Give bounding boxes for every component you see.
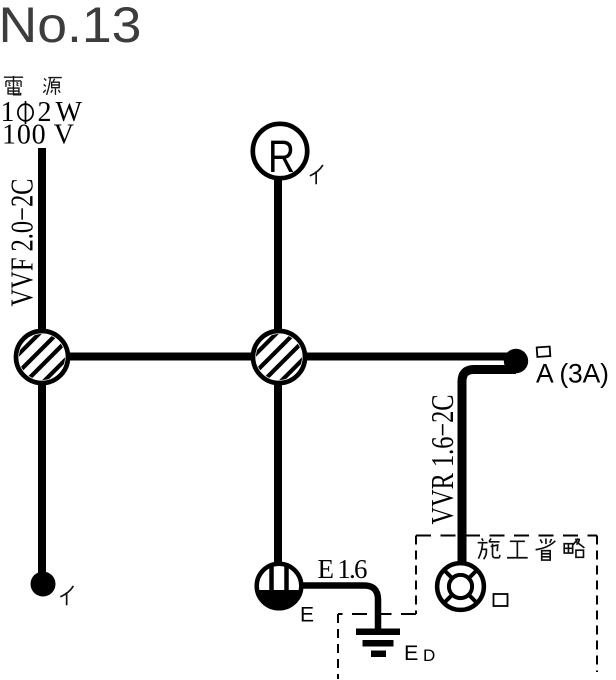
switch イ (dot) bbox=[31, 572, 56, 597]
wire: source feed down bbox=[38, 148, 46, 332]
power source label 1phi2W bbox=[1, 97, 83, 128]
wire: to automatic switch bbox=[303, 353, 510, 361]
wire: between junction boxes bbox=[66, 353, 255, 361]
svg-text:R: R bbox=[268, 131, 295, 182]
ground label ED bbox=[404, 641, 435, 665]
svg-text:VVF 2.0−2C: VVF 2.0−2C bbox=[4, 179, 39, 307]
switch label イ bbox=[60, 586, 73, 605]
automatic switch label ロ bbox=[537, 347, 551, 357]
automatic switch dot bbox=[504, 349, 528, 373]
outlet E (wall receptacle) bbox=[257, 563, 302, 608]
outdoor light label ロ bbox=[494, 594, 508, 606]
phi symbol bbox=[18, 101, 33, 124]
lamp switch-circuit label イ bbox=[310, 165, 323, 184]
lamp receptacle R bbox=[253, 124, 307, 182]
junction box left bbox=[2, 317, 82, 397]
wire: outlet drop bbox=[274, 382, 282, 564]
svg-text:VVR 1.6−2C: VVR 1.6−2C bbox=[425, 395, 460, 525]
svg-text:100 V: 100 V bbox=[2, 120, 74, 151]
svg-text:D: D bbox=[423, 646, 435, 665]
outdoor light ロ bbox=[437, 563, 484, 610]
wire: switch drop bbox=[38, 382, 46, 574]
junction box middle bbox=[239, 317, 319, 397]
svg-text:E: E bbox=[300, 604, 314, 627]
svg-text:No.13: No.13 bbox=[0, 0, 142, 53]
label 施工省略 bbox=[478, 538, 585, 560]
dashed boundary: construction omitted area bbox=[338, 536, 597, 680]
wire: lamp drop bbox=[274, 177, 282, 332]
svg-text:E 1.6: E 1.6 bbox=[318, 554, 368, 584]
svg-text:E: E bbox=[404, 641, 418, 665]
wire: earth conductor bbox=[302, 586, 378, 630]
svg-text:A (3A): A (3A) bbox=[536, 359, 609, 389]
power source label 電源 bbox=[4, 76, 62, 95]
wire: switched feed to outdoor light bbox=[462, 370, 516, 563]
earth electrode (ground symbol) bbox=[356, 629, 400, 658]
